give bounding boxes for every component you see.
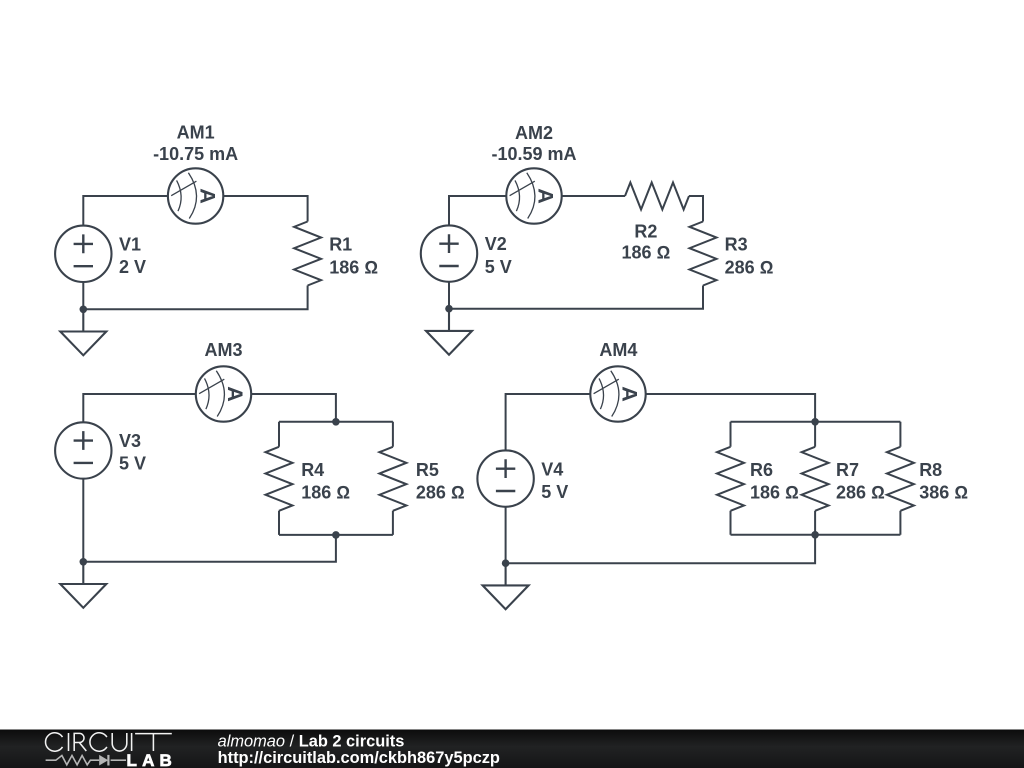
svg-text:AM1: AM1 bbox=[177, 123, 215, 143]
svg-text:5 V: 5 V bbox=[485, 257, 512, 277]
svg-text:386 Ω: 386 Ω bbox=[919, 483, 968, 503]
svg-text:R3: R3 bbox=[725, 235, 748, 255]
svg-text:5 V: 5 V bbox=[541, 482, 568, 502]
svg-text:186 Ω: 186 Ω bbox=[329, 258, 378, 278]
svg-text:R1: R1 bbox=[329, 235, 352, 255]
svg-text:186 Ω: 186 Ω bbox=[621, 243, 670, 263]
svg-text:almomao / Lab 2 circuits: almomao / Lab 2 circuits bbox=[218, 732, 405, 750]
svg-text:-10.59 mA: -10.59 mA bbox=[491, 144, 576, 164]
svg-text:286 Ω: 286 Ω bbox=[416, 483, 465, 503]
svg-text:5 V: 5 V bbox=[119, 454, 146, 474]
svg-text:186 Ω: 186 Ω bbox=[750, 483, 799, 503]
svg-text:286 Ω: 286 Ω bbox=[836, 483, 885, 503]
svg-text:http://circuitlab.com/ckbh867y: http://circuitlab.com/ckbh867y5pczp bbox=[218, 749, 500, 767]
svg-text:R6: R6 bbox=[750, 460, 773, 480]
svg-text:V3: V3 bbox=[119, 431, 141, 451]
svg-text:186 Ω: 186 Ω bbox=[301, 483, 350, 503]
svg-text:R4: R4 bbox=[301, 460, 324, 480]
svg-text:AM3: AM3 bbox=[204, 340, 242, 360]
svg-text:AM2: AM2 bbox=[515, 123, 553, 143]
svg-text:R8: R8 bbox=[919, 460, 942, 480]
svg-text:2 V: 2 V bbox=[119, 257, 146, 277]
svg-text:286 Ω: 286 Ω bbox=[725, 258, 774, 278]
svg-text:-10.75 mA: -10.75 mA bbox=[153, 144, 238, 164]
svg-text:V2: V2 bbox=[485, 234, 507, 254]
svg-text:R5: R5 bbox=[416, 460, 439, 480]
svg-text:R7: R7 bbox=[836, 460, 859, 480]
svg-text:R2: R2 bbox=[634, 221, 657, 241]
svg-text:LAB: LAB bbox=[127, 751, 178, 768]
svg-text:V1: V1 bbox=[119, 235, 141, 255]
svg-text:V4: V4 bbox=[541, 459, 563, 479]
svg-text:AM4: AM4 bbox=[599, 340, 637, 360]
